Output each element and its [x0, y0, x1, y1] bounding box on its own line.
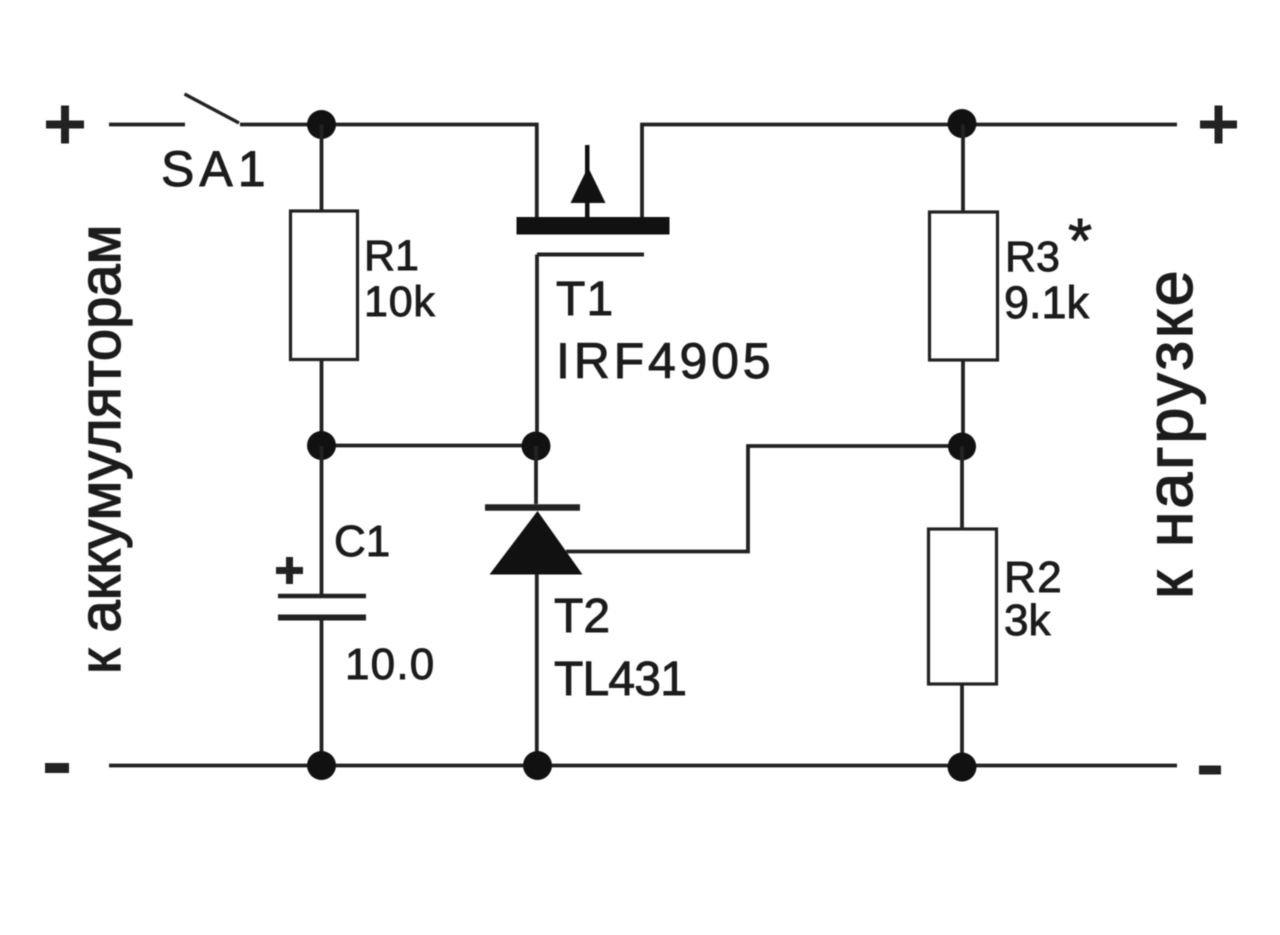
svg-text:10.0: 10.0	[345, 640, 435, 689]
node A junction dot (top of R1)	[307, 110, 336, 139]
transistor T1 channel bar	[517, 217, 670, 235]
wire R3 top lead	[961, 125, 965, 213]
wire R1 bottom lead	[320, 360, 324, 447]
capacitor C1 polarity +	[276, 557, 303, 584]
resistor R3	[930, 212, 998, 360]
terminal + (load positive)	[1200, 106, 1237, 144]
terminal - (battery negative)	[45, 763, 69, 773]
svg-text:к нагрузке: к нагрузке	[1133, 268, 1206, 599]
wire R3 bottom lead	[961, 360, 965, 447]
wire T1 drain to load +	[642, 125, 1177, 220]
terminal - (load negative)	[1199, 766, 1221, 775]
wire C1 top lead	[320, 446, 324, 594]
resistor R2	[929, 529, 997, 684]
svg-text:к аккумуляторам: к аккумуляторам	[68, 224, 133, 674]
wire switch to T1 source	[240, 125, 537, 220]
svg-text:R1: R1	[364, 232, 419, 280]
svg-text:IRF4905: IRF4905	[556, 333, 774, 389]
svg-text:*: *	[1068, 207, 1092, 276]
wire node row R1 to T2	[322, 444, 537, 448]
transistor T1 arrow (substrate)	[571, 145, 606, 217]
svg-text:9.1k: 9.1k	[1004, 277, 1090, 328]
svg-text:T1: T1	[556, 273, 614, 326]
T2 TL431 cathode bar	[485, 504, 580, 511]
node E junction dot (divider R3/R2)	[948, 433, 976, 461]
wire R2 top lead	[960, 447, 964, 530]
transistor T1 gate line	[537, 253, 644, 257]
terminal + (battery positive)	[46, 106, 84, 144]
wire from + to switch	[109, 123, 185, 127]
T2 TL431 triangle (anode)	[490, 511, 583, 575]
svg-text:3k: 3k	[1004, 596, 1051, 645]
wire R2 bottom lead	[960, 684, 964, 766]
svg-text:SA1: SA1	[161, 141, 271, 197]
wire C1 bottom lead	[320, 619, 324, 765]
wire T2 reference to divider node	[566, 446, 962, 552]
svg-text:TL431: TL431	[554, 653, 686, 706]
node C junction dot (R1/C1)	[307, 431, 336, 460]
svg-text:R3: R3	[1005, 233, 1060, 281]
svg-text:T2: T2	[554, 590, 610, 643]
node F junction dot (C1 bottom)	[307, 751, 336, 780]
node D junction dot (gate/T2 cathode)	[522, 432, 551, 461]
node G junction dot (T2 anode bottom)	[523, 751, 552, 780]
svg-text:10k: 10k	[364, 278, 436, 326]
wire T2 anode to bottom rail	[535, 574, 539, 765]
svg-text:C1: C1	[334, 517, 390, 566]
capacitor C1 plates	[278, 594, 366, 599]
wire bottom rail (negative)	[109, 764, 1177, 768]
svg-text:R2: R2	[1004, 553, 1063, 602]
node B junction dot (top of R3)	[948, 109, 977, 138]
wire T1 gate down to node row	[535, 255, 539, 447]
wire T2 cathode lead	[534, 446, 538, 504]
switch SA1	[185, 94, 240, 123]
wire R1 top lead	[320, 125, 324, 212]
node H junction dot (R2 bottom)	[948, 753, 977, 782]
resistor R1	[291, 211, 358, 360]
